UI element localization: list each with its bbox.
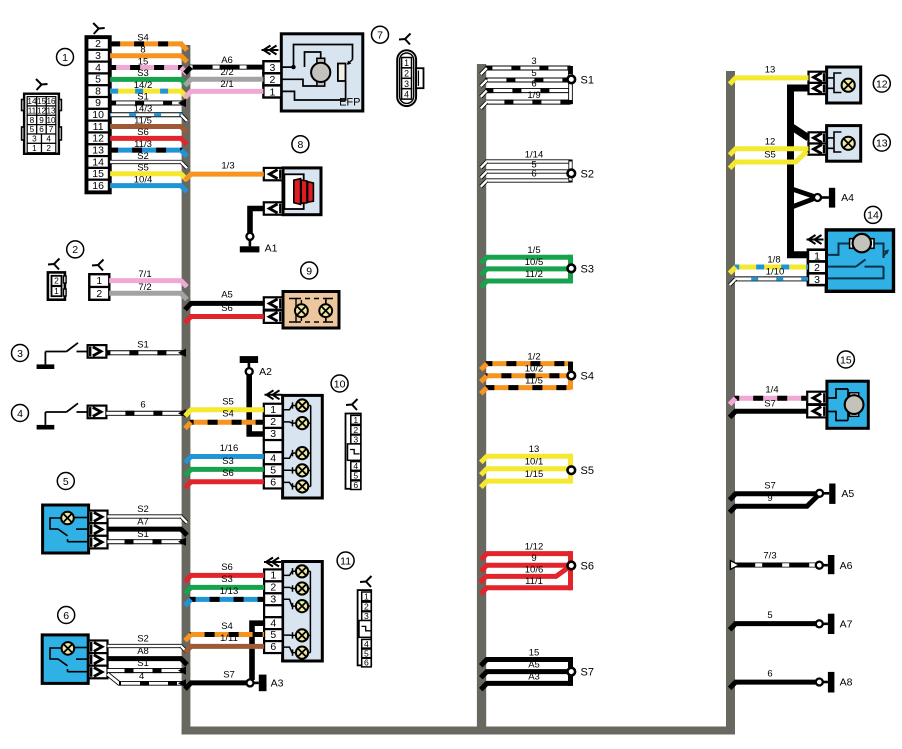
svg-text:11: 11 bbox=[28, 107, 37, 116]
svg-text:16: 16 bbox=[92, 180, 104, 192]
svg-text:S1: S1 bbox=[581, 74, 594, 86]
svg-text:3: 3 bbox=[531, 56, 536, 67]
svg-text:3: 3 bbox=[404, 79, 409, 89]
wire 7/2 bbox=[109, 282, 187, 300]
svg-text:11/5: 11/5 bbox=[134, 115, 152, 126]
ground A1 bbox=[240, 233, 278, 255]
splice S2 bbox=[481, 150, 594, 187]
svg-text:1/9: 1/9 bbox=[527, 90, 540, 101]
svg-text:3: 3 bbox=[353, 435, 358, 445]
svg-text:10/6: 10/6 bbox=[525, 564, 544, 575]
svg-text:S1: S1 bbox=[137, 92, 149, 103]
svg-text:A5: A5 bbox=[221, 290, 233, 301]
wire 9 to ground A5 bbox=[730, 493, 818, 512]
svg-text:8: 8 bbox=[30, 116, 35, 125]
svg-text:S6: S6 bbox=[137, 127, 149, 138]
svg-text:16: 16 bbox=[46, 97, 56, 106]
ground A5 bbox=[816, 484, 854, 504]
ground A4 bbox=[814, 188, 854, 208]
svg-text:1/4: 1/4 bbox=[765, 385, 778, 396]
svg-text:14/3: 14/3 bbox=[134, 104, 153, 115]
svg-text:11/3: 11/3 bbox=[134, 139, 152, 150]
svg-text:6: 6 bbox=[270, 641, 276, 653]
washer pump (component 15) bbox=[807, 381, 868, 428]
svg-text:5: 5 bbox=[767, 610, 772, 621]
wire 13 (component 12) bbox=[730, 64, 809, 84]
svg-text:2/1: 2/1 bbox=[220, 79, 233, 90]
wire 14/3 (X1 pin 10) bbox=[110, 104, 187, 121]
svg-text:1: 1 bbox=[270, 569, 276, 581]
wire to ground A1 bbox=[250, 209, 264, 234]
wire S4 (component 10) bbox=[185, 409, 264, 429]
svg-text:15: 15 bbox=[37, 97, 47, 106]
wire 6 (switch 4) bbox=[106, 400, 186, 418]
wire 1/16 (component 10) bbox=[185, 443, 264, 463]
svg-text:13: 13 bbox=[92, 144, 104, 156]
callout 10 bbox=[331, 375, 348, 392]
callout 13 bbox=[873, 134, 890, 151]
svg-text:1/5: 1/5 bbox=[527, 245, 540, 256]
svg-text:1/16: 1/16 bbox=[220, 443, 239, 454]
svg-text:3: 3 bbox=[814, 274, 820, 286]
wire S6 (component 11) bbox=[185, 562, 264, 582]
wire 6 to ground A8 bbox=[730, 669, 816, 689]
svg-text:14: 14 bbox=[867, 210, 879, 222]
wire 15 (X1 pin 4) bbox=[110, 56, 187, 73]
svg-text:3: 3 bbox=[270, 428, 276, 440]
svg-text:3: 3 bbox=[364, 611, 369, 621]
svg-text:A1: A1 bbox=[265, 243, 278, 255]
svg-text:13: 13 bbox=[876, 137, 888, 149]
wire S5 (component 13) bbox=[730, 150, 807, 169]
svg-text:4: 4 bbox=[404, 89, 409, 99]
callout 8 bbox=[292, 136, 309, 153]
svg-text:9: 9 bbox=[306, 265, 312, 277]
wire S1 (switch 3) bbox=[106, 340, 186, 358]
fuel pump module EFP (component 7) bbox=[262, 34, 363, 111]
ground A7 bbox=[816, 614, 853, 634]
svg-text:S1: S1 bbox=[137, 529, 149, 540]
svg-text:7: 7 bbox=[377, 30, 383, 42]
svg-text:9: 9 bbox=[767, 493, 772, 504]
svg-text:2: 2 bbox=[364, 602, 369, 612]
svg-text:1: 1 bbox=[353, 415, 358, 425]
svg-text:1/10: 1/10 bbox=[766, 266, 785, 277]
svg-text:12: 12 bbox=[876, 78, 888, 90]
svg-text:12: 12 bbox=[92, 133, 104, 145]
connector X1 housing icon bbox=[22, 79, 62, 154]
svg-text:S7: S7 bbox=[764, 399, 776, 410]
svg-text:S4: S4 bbox=[137, 33, 149, 44]
wire S6 (component 9) bbox=[185, 303, 264, 323]
svg-text:9: 9 bbox=[95, 97, 101, 109]
svg-text:4: 4 bbox=[270, 452, 276, 464]
svg-text:11/5: 11/5 bbox=[525, 376, 543, 387]
wire S3 (X1 pin 5) bbox=[110, 68, 187, 85]
svg-text:1/8: 1/8 bbox=[767, 254, 780, 265]
svg-text:8: 8 bbox=[140, 45, 145, 56]
connector diagram (component 11) bbox=[358, 576, 372, 668]
wire harness bus left bbox=[182, 45, 191, 735]
svg-text:1: 1 bbox=[96, 275, 102, 287]
svg-text:15: 15 bbox=[529, 648, 540, 659]
wire 7/1 bbox=[109, 269, 187, 287]
wire harness bus middle bbox=[477, 64, 486, 735]
svg-text:6: 6 bbox=[63, 610, 69, 622]
svg-text:S1: S1 bbox=[137, 658, 149, 669]
ground A6 bbox=[816, 555, 853, 574]
rear lamp cluster (component 11) bbox=[264, 558, 322, 662]
svg-text:2: 2 bbox=[46, 144, 51, 153]
svg-text:1: 1 bbox=[364, 592, 369, 602]
svg-text:5: 5 bbox=[95, 74, 101, 86]
svg-text:4: 4 bbox=[270, 617, 276, 629]
wire 11/3 (X1 pin 13) bbox=[110, 139, 187, 156]
interior lamp (component 9) bbox=[264, 292, 339, 329]
svg-text:S3: S3 bbox=[581, 263, 594, 275]
svg-text:S3: S3 bbox=[222, 456, 234, 467]
svg-text:A3: A3 bbox=[528, 671, 540, 682]
svg-text:S3: S3 bbox=[221, 574, 233, 585]
svg-text:S4: S4 bbox=[581, 371, 594, 383]
svg-text:1: 1 bbox=[270, 404, 276, 416]
wire 1/3 bbox=[185, 160, 264, 180]
wire S7 to ground A3 bbox=[185, 669, 247, 689]
svg-text:S6: S6 bbox=[581, 561, 594, 573]
svg-text:S2: S2 bbox=[137, 504, 149, 515]
wire 2/1 bbox=[185, 79, 263, 97]
svg-text:15: 15 bbox=[840, 354, 852, 366]
switch 4 bbox=[37, 403, 107, 429]
wire 7/3 to ground A6 bbox=[730, 551, 815, 570]
lamp unit 6 bbox=[42, 635, 107, 684]
svg-text:12: 12 bbox=[37, 107, 47, 116]
svg-text:2: 2 bbox=[72, 244, 78, 256]
svg-text:7: 7 bbox=[49, 125, 54, 134]
callout 11 bbox=[337, 552, 354, 569]
connector X2 housing icon bbox=[48, 259, 66, 300]
wire S2 (lamp unit 6) bbox=[108, 634, 188, 653]
svg-text:12: 12 bbox=[765, 136, 776, 147]
heater blower motor (component 14) bbox=[807, 230, 894, 291]
svg-text:3: 3 bbox=[17, 348, 23, 360]
svg-text:A6: A6 bbox=[840, 560, 853, 572]
svg-text:2: 2 bbox=[54, 276, 59, 286]
svg-text:6: 6 bbox=[767, 669, 772, 680]
svg-text:4: 4 bbox=[46, 135, 51, 144]
svg-text:A8: A8 bbox=[137, 646, 149, 657]
callout 14 bbox=[865, 206, 882, 223]
wire S4 (component 11) bbox=[185, 621, 264, 641]
svg-text:1: 1 bbox=[32, 144, 37, 153]
wire 10/4 (X1 pin 16) bbox=[110, 174, 187, 191]
svg-text:S7: S7 bbox=[223, 669, 235, 680]
svg-text:A5: A5 bbox=[841, 488, 854, 500]
side lamp (component 12) bbox=[809, 67, 861, 103]
ground A8 bbox=[816, 672, 853, 693]
svg-text:S2: S2 bbox=[581, 168, 594, 180]
splice S7 bbox=[481, 648, 594, 690]
svg-text:8: 8 bbox=[95, 85, 101, 97]
wire S1 (lamp unit 6) bbox=[108, 658, 187, 675]
splice S6 bbox=[480, 542, 594, 594]
svg-text:S5: S5 bbox=[764, 150, 776, 161]
callout 12 bbox=[873, 75, 890, 92]
callout 5 bbox=[57, 473, 74, 490]
svg-text:1: 1 bbox=[269, 86, 275, 98]
wire S1 (lamp unit 5) bbox=[108, 529, 187, 546]
svg-text:1/13: 1/13 bbox=[220, 586, 239, 597]
svg-text:6: 6 bbox=[39, 125, 44, 134]
svg-text:S2: S2 bbox=[137, 151, 149, 162]
svg-text:2: 2 bbox=[270, 416, 276, 428]
splice S4 bbox=[481, 352, 594, 394]
svg-text:11: 11 bbox=[93, 121, 104, 133]
svg-text:10/5: 10/5 bbox=[525, 257, 544, 268]
svg-text:1: 1 bbox=[62, 52, 68, 64]
wire harness bus bottom bbox=[182, 727, 735, 735]
wire S1 (X1 pin 9) bbox=[110, 92, 186, 107]
svg-text:3: 3 bbox=[95, 50, 101, 62]
callout 15 bbox=[837, 351, 854, 368]
branch arrow above X1 pin block bbox=[93, 23, 105, 34]
connector X2 pin block bbox=[89, 260, 109, 300]
connector icon (component 7) bbox=[397, 34, 423, 107]
wire 1/10 (component 14) bbox=[730, 266, 808, 285]
svg-text:A7: A7 bbox=[840, 619, 853, 631]
svg-text:7/1: 7/1 bbox=[138, 269, 151, 280]
wire 11/5 (X1 pin 11) bbox=[110, 115, 187, 132]
svg-text:S2: S2 bbox=[137, 634, 149, 645]
svg-text:A7: A7 bbox=[137, 517, 149, 528]
wire S6 (X1 pin 12) bbox=[110, 127, 187, 144]
wire S3 (component 11) bbox=[185, 574, 264, 594]
svg-text:5: 5 bbox=[270, 464, 276, 476]
wire S5 (X1 pin 15) bbox=[110, 163, 187, 180]
svg-text:1/11: 1/11 bbox=[220, 633, 238, 644]
svg-text:6: 6 bbox=[140, 400, 145, 411]
svg-text:4: 4 bbox=[95, 62, 101, 74]
svg-text:S6: S6 bbox=[222, 468, 234, 479]
svg-text:S5: S5 bbox=[137, 163, 149, 174]
svg-text:3: 3 bbox=[270, 593, 276, 605]
svg-text:1/2: 1/2 bbox=[527, 352, 540, 363]
svg-text:S5: S5 bbox=[581, 465, 594, 477]
splice S1 bbox=[481, 56, 594, 108]
wire 1/13 (component 11) bbox=[185, 586, 264, 606]
wire S7 (component 15) bbox=[730, 399, 808, 418]
callout 7 bbox=[372, 26, 389, 43]
wire S7 to ground A5 bbox=[730, 481, 816, 500]
svg-text:A2: A2 bbox=[259, 366, 272, 378]
wire pin4 to ground A3 (component 11) bbox=[252, 623, 264, 680]
svg-text:S4: S4 bbox=[221, 621, 233, 632]
svg-text:A4: A4 bbox=[841, 192, 854, 204]
svg-text:S6: S6 bbox=[221, 303, 233, 314]
svg-text:11: 11 bbox=[340, 555, 351, 567]
wire 8 (X1 pin 3) bbox=[110, 45, 187, 62]
svg-text:6: 6 bbox=[270, 477, 276, 489]
svg-text:14: 14 bbox=[27, 97, 37, 106]
svg-text:5: 5 bbox=[270, 629, 276, 641]
svg-text:1: 1 bbox=[404, 58, 409, 68]
svg-text:1: 1 bbox=[54, 286, 59, 296]
svg-text:2: 2 bbox=[353, 425, 358, 435]
svg-text:11/1: 11/1 bbox=[525, 576, 543, 587]
svg-text:A6: A6 bbox=[221, 55, 233, 66]
callout 2 bbox=[67, 241, 84, 258]
svg-text:6: 6 bbox=[531, 169, 536, 180]
wire A8 (lamp unit 6) bbox=[108, 646, 188, 665]
svg-text:5: 5 bbox=[531, 68, 536, 79]
connector diagram (component 10) bbox=[346, 399, 361, 490]
wire A7 (lamp unit 5) bbox=[108, 517, 188, 536]
wire S2 (X1 pin 14) bbox=[110, 151, 187, 168]
svg-text:EFP: EFP bbox=[339, 97, 360, 109]
wire A6 bbox=[185, 55, 263, 73]
svg-text:A3: A3 bbox=[271, 678, 284, 690]
svg-text:2: 2 bbox=[404, 69, 409, 79]
wire 14/2 (X1 pin 8) bbox=[110, 80, 187, 97]
svg-text:6: 6 bbox=[364, 658, 369, 668]
ground A2 bbox=[240, 356, 272, 378]
svg-text:2/2: 2/2 bbox=[220, 67, 233, 78]
svg-text:10: 10 bbox=[92, 109, 104, 121]
svg-text:1/3: 1/3 bbox=[221, 160, 234, 171]
svg-text:1/15: 1/15 bbox=[525, 469, 544, 480]
wire 12 (component 13) bbox=[730, 136, 809, 155]
svg-text:15: 15 bbox=[92, 168, 104, 180]
svg-text:2: 2 bbox=[96, 288, 102, 300]
wire S4 (X1 pin 2) bbox=[110, 33, 187, 50]
svg-text:S7: S7 bbox=[581, 667, 594, 679]
svg-text:10/4: 10/4 bbox=[134, 174, 153, 185]
wire S3 (component 10) bbox=[185, 456, 264, 476]
wire A2 to pin 3 (component 10) bbox=[249, 375, 265, 434]
svg-text:3: 3 bbox=[32, 135, 37, 144]
callout 6 bbox=[58, 607, 75, 624]
wire S6 (component 10) bbox=[185, 468, 264, 488]
wire 5 to ground A7 bbox=[730, 610, 816, 630]
callout 4 bbox=[12, 405, 29, 422]
switch 3 bbox=[37, 343, 107, 369]
svg-text:4: 4 bbox=[17, 408, 23, 420]
svg-text:S3: S3 bbox=[137, 68, 149, 79]
svg-text:S6: S6 bbox=[221, 562, 233, 573]
svg-text:13: 13 bbox=[529, 444, 540, 455]
svg-text:S5: S5 bbox=[222, 396, 234, 407]
wire 1/11 (component 11) bbox=[185, 633, 264, 653]
svg-text:5: 5 bbox=[63, 476, 69, 488]
svg-text:7/3: 7/3 bbox=[763, 551, 776, 562]
svg-text:A5: A5 bbox=[528, 660, 540, 671]
svg-text:10/2: 10/2 bbox=[525, 364, 544, 375]
svg-text:2: 2 bbox=[270, 581, 276, 593]
svg-text:10/1: 10/1 bbox=[525, 457, 544, 468]
svg-text:11/2: 11/2 bbox=[525, 269, 543, 280]
svg-text:S7: S7 bbox=[764, 481, 776, 492]
lamp unit 5 bbox=[43, 505, 108, 553]
svg-text:8: 8 bbox=[297, 139, 303, 151]
connector X1 pin block bbox=[86, 37, 110, 193]
ground A3 bbox=[247, 675, 284, 692]
svg-text:14/2: 14/2 bbox=[134, 80, 153, 91]
wire 2/2 bbox=[185, 67, 263, 85]
splice S5 bbox=[481, 444, 594, 487]
svg-text:5: 5 bbox=[30, 125, 35, 134]
wire S2 (lamp unit 5) bbox=[108, 504, 188, 523]
side lamp (component 13) bbox=[809, 126, 861, 162]
wire S5 (component 10) bbox=[185, 396, 264, 416]
svg-text:9: 9 bbox=[531, 553, 536, 564]
wire 4 (lamp unit 6) bbox=[108, 671, 187, 688]
wire 1/4 (component 15) bbox=[730, 385, 808, 405]
svg-text:4: 4 bbox=[353, 461, 358, 471]
svg-text:5: 5 bbox=[353, 471, 358, 481]
svg-text:14: 14 bbox=[92, 156, 104, 168]
callout 9 bbox=[301, 262, 318, 279]
splice S3 bbox=[481, 245, 594, 287]
wire A5 (component 9) bbox=[185, 290, 264, 310]
buzzer (component 8) bbox=[264, 168, 321, 215]
svg-text:A8: A8 bbox=[840, 677, 853, 689]
wire black chain lamps 12/13 to A4 and motor 14 bbox=[791, 88, 818, 255]
svg-text:S1: S1 bbox=[137, 340, 149, 351]
instrument cluster lamps (component 10) bbox=[264, 390, 323, 498]
svg-text:4: 4 bbox=[364, 639, 369, 649]
svg-text:7/2: 7/2 bbox=[138, 282, 151, 293]
svg-text:2: 2 bbox=[95, 38, 101, 50]
svg-text:1/12: 1/12 bbox=[525, 542, 544, 553]
svg-text:9: 9 bbox=[39, 116, 44, 125]
wire harness bus right bbox=[726, 71, 735, 735]
callout 1 bbox=[57, 49, 74, 66]
svg-text:13: 13 bbox=[46, 107, 56, 116]
callout 3 bbox=[12, 345, 29, 362]
svg-text:4: 4 bbox=[139, 671, 144, 682]
svg-text:S4: S4 bbox=[222, 409, 234, 420]
svg-text:6: 6 bbox=[531, 79, 536, 90]
svg-text:13: 13 bbox=[765, 64, 776, 75]
svg-text:6: 6 bbox=[353, 480, 358, 490]
wire 1/8 (component 14) bbox=[730, 254, 808, 273]
svg-text:10: 10 bbox=[334, 378, 346, 390]
svg-text:15: 15 bbox=[138, 56, 149, 67]
svg-text:10: 10 bbox=[46, 116, 56, 125]
